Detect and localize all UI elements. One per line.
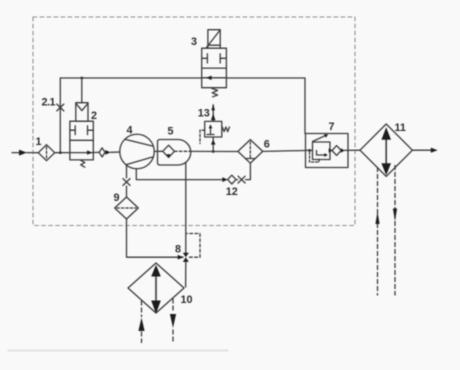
svg-text:13: 13 [198,108,210,120]
svg-text:12: 12 [226,186,238,198]
svg-text:6: 6 [264,139,270,151]
svg-text:2: 2 [91,110,97,122]
svg-text:5: 5 [168,126,174,138]
svg-text:4: 4 [127,125,133,137]
svg-text:9: 9 [114,192,120,204]
svg-text:8: 8 [175,244,181,256]
svg-text:10: 10 [181,294,193,306]
svg-text:3: 3 [191,36,197,48]
svg-text:11: 11 [395,122,406,134]
svg-text:7: 7 [329,121,335,133]
svg-text:2.1: 2.1 [42,96,56,108]
svg-text:1: 1 [36,136,42,148]
